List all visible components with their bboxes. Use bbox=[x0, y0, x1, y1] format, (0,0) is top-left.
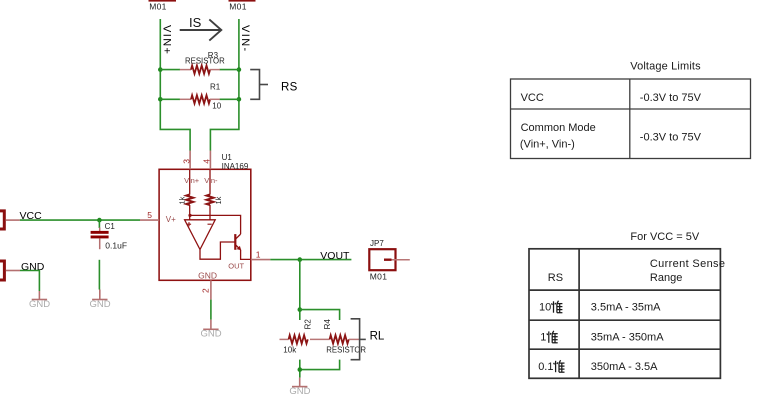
resistor R2 (10k) bbox=[280, 319, 313, 355]
wire pin2 to GND symbol bbox=[210, 300, 212, 320]
resistor R1 (value 10) bbox=[180, 82, 222, 110]
wire RL bottom left bbox=[299, 360, 301, 378]
svg-text:C1: C1 bbox=[105, 222, 116, 231]
ground symbol under GND header bbox=[29, 291, 50, 310]
wire to R1 left bbox=[160, 98, 180, 100]
svg-text:RL: RL bbox=[370, 330, 385, 342]
resistor R3 (value RESISTOR) bbox=[180, 51, 225, 74]
svg-text:0.1uF: 0.1uF bbox=[105, 240, 127, 250]
wire to R3 left bbox=[160, 69, 180, 71]
svg-text:1k: 1k bbox=[214, 196, 223, 204]
pin 1 (OUT) bbox=[251, 259, 270, 261]
svg-text:GND: GND bbox=[198, 271, 217, 281]
junction VIN-/R3 bbox=[237, 67, 242, 72]
svg-text:Range: Range bbox=[650, 272, 682, 284]
internal wire 1k to op-amp inputs bbox=[189, 205, 191, 220]
wire net VIN+ (left vertical, elbow to pin 3) bbox=[160, 19, 190, 151]
junction dot at Vin+ / collector feed bbox=[188, 214, 191, 217]
svg-text:JP7: JP7 bbox=[370, 239, 384, 248]
pin 2 (GND) bbox=[210, 280, 212, 299]
mojibake ohm glyph row1 bbox=[552, 301, 563, 313]
wire C1 to ground bbox=[98, 260, 100, 290]
ground symbol under RL bbox=[289, 378, 310, 397]
svg-text:M01: M01 bbox=[229, 2, 246, 12]
internal wire from pin3 to 1k bbox=[189, 169, 191, 194]
svg-text:VOUT: VOUT bbox=[320, 250, 350, 262]
svg-text:RS: RS bbox=[548, 272, 563, 284]
connector JP1 (top-left M01 header, cut off at top) bbox=[149, 0, 177, 12]
pin 3 (Vin+) bbox=[189, 151, 191, 170]
wire net VCC bbox=[20, 219, 140, 221]
wire net VOUT bbox=[270, 259, 351, 261]
internal wire from pin4 to 1k bbox=[209, 169, 211, 194]
svg-text:R1: R1 bbox=[210, 82, 221, 91]
wire VCC junction down to C1 bbox=[98, 220, 100, 228]
wire to R3 right bbox=[220, 69, 239, 71]
svg-text:350mA - 3.5A: 350mA - 3.5A bbox=[591, 361, 658, 373]
wire RL bottom elbow bbox=[300, 360, 340, 370]
wire VOUT down to RL bbox=[299, 260, 301, 320]
svg-text:4: 4 bbox=[202, 159, 212, 164]
mojibake ohm glyph row2 bbox=[547, 331, 558, 343]
internal wire emitter to OUT bbox=[241, 250, 251, 260]
svg-text:VIN-: VIN- bbox=[239, 25, 251, 53]
junction VCC/C1 bbox=[97, 218, 102, 223]
svg-text:Voltage Limits: Voltage Limits bbox=[630, 61, 701, 73]
svg-text:GND: GND bbox=[200, 329, 221, 340]
svg-text:IS: IS bbox=[189, 15, 202, 30]
bracket RL bbox=[351, 319, 385, 360]
svg-text:3.5mA - 35mA: 3.5mA - 35mA bbox=[591, 302, 661, 314]
svg-text:VCC: VCC bbox=[521, 92, 544, 104]
mojibake ohm glyph row3 bbox=[554, 360, 565, 372]
wire to R1 right bbox=[220, 98, 239, 100]
capacitor C1 0.1uF bbox=[91, 222, 127, 251]
op-amp triangle bbox=[185, 220, 216, 250]
junction VOUT bbox=[298, 257, 303, 262]
junction RL bottom bbox=[298, 367, 303, 372]
junction VIN-/R1 bbox=[237, 97, 242, 102]
svg-text:-0.3V to 75V: -0.3V to 75V bbox=[640, 131, 702, 143]
svg-text:10: 10 bbox=[212, 102, 221, 111]
wire net GND elbow bbox=[20, 271, 39, 292]
svg-text:-0.3V to 75V: -0.3V to 75V bbox=[640, 92, 702, 104]
svg-text:R2: R2 bbox=[303, 319, 312, 330]
connector JP7 (VOUT header M01) bbox=[369, 239, 410, 281]
internal wire op-amp output to transistor base bbox=[200, 242, 235, 259]
internal resistor 1k (right) bbox=[207, 195, 214, 206]
current direction arrow IS bbox=[180, 15, 222, 41]
svg-text:R4: R4 bbox=[323, 319, 332, 330]
svg-text:M01: M01 bbox=[149, 2, 166, 12]
svg-text:Common Mode: Common Mode bbox=[521, 122, 596, 134]
connector JP2 (top-right M01 header, cut off at top) bbox=[229, 0, 256, 12]
svg-text:1k: 1k bbox=[178, 196, 187, 204]
resistor R4 (RESISTOR) bbox=[323, 319, 366, 355]
wire RL top elbow bbox=[300, 310, 340, 320]
svg-text:10: 10 bbox=[539, 302, 551, 314]
svg-text:0.1: 0.1 bbox=[538, 361, 553, 373]
svg-text:(Vin+, Vin-): (Vin+, Vin-) bbox=[520, 139, 575, 151]
internal resistor 1k (left) bbox=[186, 195, 193, 206]
internal wire top rail to collector bbox=[190, 215, 241, 234]
svg-text:M01: M01 bbox=[370, 272, 387, 282]
op-amp IC U1 INA169 box bbox=[159, 169, 251, 280]
table 1: Voltage Limits bbox=[511, 61, 751, 159]
ground symbol under U1 bbox=[200, 320, 221, 340]
svg-text:10k: 10k bbox=[283, 345, 297, 354]
bracket RS bbox=[250, 70, 297, 100]
svg-text:5: 5 bbox=[147, 210, 152, 220]
svg-text:Current Sense: Current Sense bbox=[650, 258, 725, 270]
junction RL top bbox=[298, 307, 303, 312]
svg-text:3: 3 bbox=[181, 159, 191, 164]
svg-text:For VCC = 5V: For VCC = 5V bbox=[630, 231, 699, 243]
plus mark bbox=[187, 222, 191, 226]
svg-text:Vin+: Vin+ bbox=[184, 176, 200, 185]
svg-text:1: 1 bbox=[256, 250, 261, 260]
svg-text:GND: GND bbox=[89, 299, 110, 310]
svg-text:RS: RS bbox=[281, 81, 298, 93]
svg-text:2: 2 bbox=[201, 288, 211, 293]
svg-text:RESISTOR: RESISTOR bbox=[185, 57, 225, 66]
wire net VIN- (right vertical, elbow to pin 4) bbox=[210, 19, 239, 151]
svg-text:1: 1 bbox=[540, 332, 546, 344]
svg-text:GND: GND bbox=[289, 386, 310, 397]
svg-text:OUT: OUT bbox=[228, 261, 244, 270]
svg-text:V+: V+ bbox=[166, 215, 176, 224]
svg-text:Vin-: Vin- bbox=[204, 176, 218, 185]
connector JP4 (GND header at left edge) bbox=[0, 261, 20, 280]
svg-text:GND: GND bbox=[29, 299, 50, 310]
svg-text:U1: U1 bbox=[222, 153, 233, 162]
junction VIN+/R3 bbox=[158, 67, 163, 72]
svg-text:INA169: INA169 bbox=[222, 162, 249, 171]
svg-text:35mA - 350mA: 35mA - 350mA bbox=[591, 332, 664, 344]
pin 4 (Vin-) bbox=[209, 151, 211, 170]
table 2: For VCC = 5V current sense ranges bbox=[529, 231, 725, 378]
ground symbol under C1 bbox=[89, 290, 110, 310]
minus mark bbox=[208, 223, 212, 225]
junction VIN+/R1 bbox=[158, 97, 163, 102]
wire between R2 and R4 bbox=[310, 338, 330, 340]
pin 5 (V+) bbox=[140, 219, 159, 221]
connector JP3 (VCC header at left edge) bbox=[0, 211, 20, 229]
svg-text:VIN+: VIN+ bbox=[160, 25, 172, 55]
transistor Q (internal) bbox=[235, 234, 241, 250]
